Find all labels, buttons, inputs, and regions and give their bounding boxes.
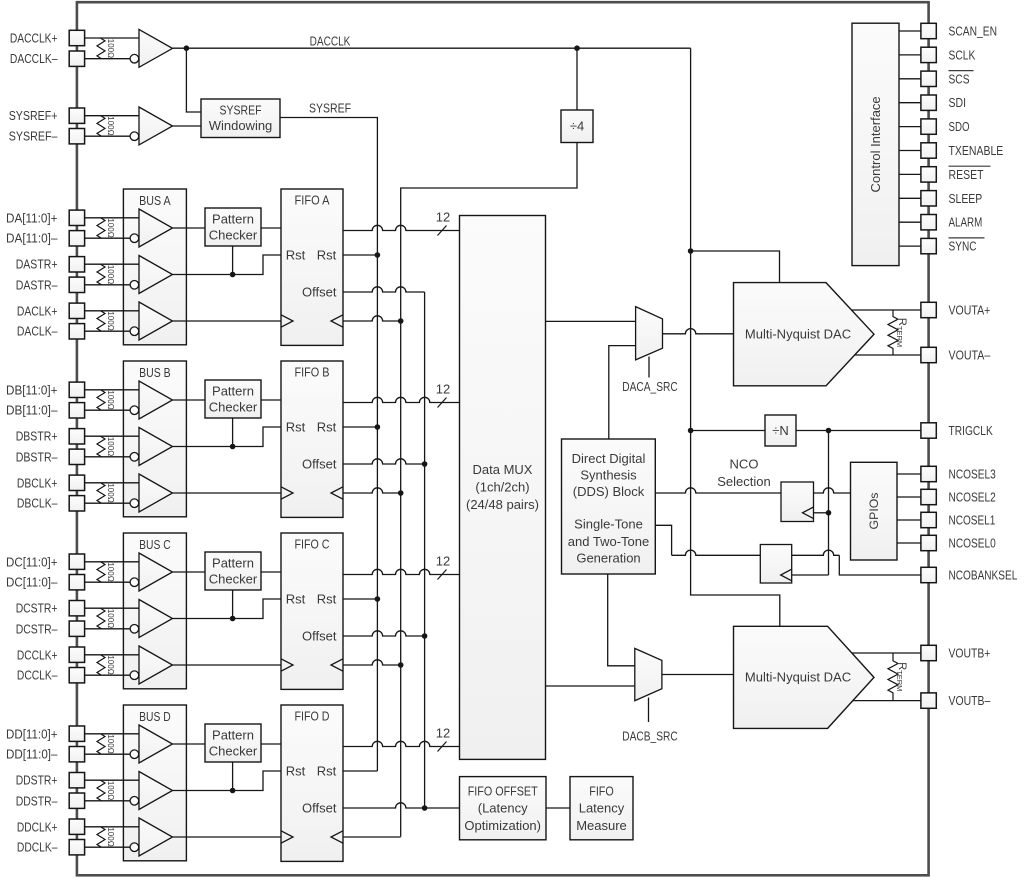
wire DCSTR+ input: [85, 607, 139, 609]
block Control Interface: [852, 23, 899, 265]
wire FIFO C reset to SYSREF bus: [343, 598, 377, 600]
wire FIFO D offset: [343, 803, 460, 808]
svg-text:TXENABLE: TXENABLE: [949, 143, 1004, 158]
wire FIFO C offset: [343, 631, 425, 636]
pin DA[11:0]-: [69, 231, 84, 246]
svg-text:Pattern: Pattern: [212, 212, 254, 227]
block FIFO Latency Measure: [570, 777, 633, 840]
junction DACCLK to DAC A clock: [688, 248, 694, 254]
svg-text:÷4: ÷4: [570, 119, 584, 134]
junction DACCLK to divN: [688, 428, 694, 434]
block BUS C: [123, 533, 186, 689]
svg-text:100Ω: 100Ω: [106, 311, 115, 330]
pin VOUTB-: [921, 693, 936, 708]
wire DDS to DACB mux: [608, 574, 635, 666]
junction DACCLK to divider: [574, 45, 580, 51]
svg-text:SLEEP: SLEEP: [949, 191, 983, 206]
resistor 100ohm DCCLK termination: [97, 655, 105, 675]
svg-text:SCAN_EN: SCAN_EN: [949, 23, 998, 38]
svg-text:DACLK+: DACLK+: [17, 303, 58, 318]
svg-text:VOUTB–: VOUTB–: [949, 693, 992, 708]
pin SCAN_EN: [921, 23, 936, 38]
wire pattern checker C to FIFO C: [261, 571, 281, 573]
svg-text:12: 12: [436, 726, 450, 741]
wire div4 output to FIFO clock bus: [401, 143, 577, 322]
svg-text:SYSREF: SYSREF: [309, 100, 351, 115]
wire DASTR- input: [85, 284, 135, 286]
svg-text:NCOSEL2: NCOSEL2: [949, 489, 996, 504]
clock wedge FIFO C write: [281, 659, 293, 671]
block BUS B: [123, 361, 186, 517]
pin SCLK: [921, 47, 936, 62]
wire DBSTR strobe to FIFO B reset: [173, 427, 282, 447]
junction FIFO B reset on v1: [375, 424, 381, 430]
wire FIFO D data out 12-bit to Data MUX: [343, 741, 460, 746]
wire DACB mux to Multi-Nyquist DAC B: [662, 674, 734, 676]
svg-text:ALARM: ALARM: [949, 215, 983, 230]
DAC B Multi-Nyquist DAC: [734, 626, 875, 728]
pin SYSREF-: [69, 129, 84, 144]
clock wedge FIFO B write: [281, 487, 293, 499]
wire DDS NCO select out1: [655, 488, 781, 493]
svg-text:DACA_SRC: DACA_SRC: [622, 379, 678, 394]
wire DDSTR+ input: [85, 779, 139, 781]
pin ALARM: [921, 215, 936, 230]
svg-text:Data MUX: Data MUX: [473, 462, 533, 477]
wire DACLK+ input: [85, 310, 139, 312]
svg-text:DACCLK: DACCLK: [310, 33, 351, 48]
wire DBSTR+ input: [85, 435, 139, 437]
flip-flop NCO select 2: [760, 545, 791, 584]
svg-text:SYSREF–: SYSREF–: [9, 129, 59, 144]
pin VOUTA-: [921, 347, 936, 362]
wire FIFO D read clock to clock bus: [343, 836, 401, 838]
svg-text:12: 12: [436, 554, 450, 569]
junction FF1 clock on v4: [826, 510, 832, 516]
svg-text:Optimization): Optimization): [464, 818, 541, 833]
buffer DDCLK clock: [139, 818, 173, 856]
block Pattern Checker B: [205, 380, 261, 418]
pin NCOSEL2: [921, 489, 936, 504]
svg-text:DDCLK+: DDCLK+: [17, 819, 58, 834]
wire FF1 clock: [814, 512, 829, 514]
pin DD[11:0]-: [69, 747, 84, 762]
resistor 100ohm DACLK termination: [97, 311, 105, 331]
block FIFO OFFSET latency optimization: [460, 777, 547, 840]
svg-text:Pattern: Pattern: [212, 728, 254, 743]
pin DDSTR+: [69, 773, 84, 788]
wire FIFO clock bus v2: [400, 321, 402, 837]
wire control interface to TXENABLE: [899, 150, 921, 152]
svg-text:Offset: Offset: [302, 285, 337, 300]
divider DIV4: [561, 110, 593, 143]
block FIFO C: [281, 533, 343, 689]
wire FF2 clock: [792, 574, 829, 576]
buffer DBSTR strobe: [139, 428, 173, 466]
wire DACB_SRC select: [648, 698, 650, 723]
svg-text:100Ω: 100Ω: [106, 483, 115, 502]
wire FIFO OFFSET to FIFO Latency Measure: [546, 807, 570, 809]
wire control interface to ALARM: [899, 221, 921, 223]
svg-text:Rst: Rst: [317, 764, 337, 779]
wire DB[11:0]+ input: [85, 389, 139, 391]
svg-text:(DDS) Block: (DDS) Block: [573, 484, 645, 499]
svg-text:Rst: Rst: [317, 420, 337, 435]
svg-text:SYSREF+: SYSREF+: [9, 108, 58, 123]
wire Data MUX to DACB mux: [546, 685, 635, 687]
block Pattern Checker D: [205, 724, 261, 762]
clock wedge FIFO B read: [331, 487, 343, 499]
wire control interface to SDO: [899, 126, 921, 128]
svg-text:DACLK–: DACLK–: [17, 324, 58, 339]
pin SCS: [921, 71, 936, 86]
clock wedge FIFO A read: [331, 315, 343, 327]
junction pattern checker A strobe: [230, 272, 236, 278]
junction FIFO D offset on v3: [422, 805, 428, 811]
svg-text:DCSTR–: DCSTR–: [16, 621, 59, 636]
wire control interface to SYNC: [899, 245, 921, 247]
junction FIFO B offset on v3: [422, 461, 428, 467]
wire DCCLK+ input: [85, 654, 139, 656]
pin DC[11:0]-: [69, 575, 84, 590]
resistor 100ohm DC data termination: [97, 562, 105, 582]
pin NCOSEL3: [921, 466, 936, 481]
wire control interface to SDI: [899, 102, 921, 104]
resistor 100ohm DCSTR termination: [97, 608, 105, 629]
svg-text:TRIGCLK: TRIGCLK: [949, 423, 994, 438]
resistor 100ohm DACCLK termination: [97, 38, 105, 59]
svg-text:FIFO OFFSET: FIFO OFFSET: [468, 783, 538, 798]
wire DA[11:0]- input: [85, 237, 135, 239]
svg-text:DBSTR+: DBSTR+: [16, 429, 58, 444]
resistor 100ohm DA data termination: [97, 218, 105, 238]
pin DACCLK-: [69, 51, 84, 66]
pin DCSTR+: [69, 601, 84, 616]
buffer DBCLK clock: [139, 474, 173, 512]
resistor 100ohm DD data termination: [97, 734, 105, 754]
svg-text:Checker: Checker: [209, 228, 258, 243]
pin SLEEP: [921, 191, 936, 206]
pin DCCLK+: [69, 647, 84, 662]
wire bus A data to pattern checker: [173, 227, 206, 229]
wire DDCLK+ input: [85, 826, 139, 828]
pin DCCLK-: [69, 668, 84, 683]
pin DB[11:0]+: [69, 382, 84, 397]
svg-text:NCOSEL3: NCOSEL3: [949, 466, 996, 481]
wire SYSREF reset bus v1: [376, 255, 378, 771]
buffer DB data: [139, 381, 173, 419]
wire control interface to SCS: [899, 78, 921, 80]
svg-text:Rst: Rst: [286, 248, 306, 263]
svg-text:DCCLK–: DCCLK–: [17, 668, 58, 683]
block Pattern Checker C: [205, 552, 261, 590]
junction pattern checker C strobe: [230, 616, 236, 622]
svg-text:Selection: Selection: [717, 474, 770, 489]
pin DDCLK-: [69, 840, 84, 855]
buffer DCSTR strobe: [139, 600, 173, 638]
buffer DD data: [139, 725, 173, 763]
block BUS A: [123, 189, 186, 345]
svg-text:VOUTA+: VOUTA+: [949, 302, 991, 317]
pin DASTR+: [69, 257, 84, 272]
wire DA[11:0]+ input: [85, 217, 139, 219]
pin DB[11:0]-: [69, 403, 84, 418]
svg-text:BUS D: BUS D: [139, 709, 171, 724]
svg-text:÷N: ÷N: [772, 423, 789, 438]
svg-text:NCOSEL1: NCOSEL1: [949, 512, 996, 527]
wire DBCLK to FIFO B write clock: [173, 492, 282, 494]
svg-text:SDO: SDO: [949, 119, 970, 134]
svg-text:100Ω: 100Ω: [106, 437, 115, 456]
svg-text:NCOBANKSEL: NCOBANKSEL: [949, 567, 1018, 582]
pin DBCLK+: [69, 475, 84, 490]
wire pattern checker C strobe tap: [232, 590, 234, 619]
wire DASTR strobe to FIFO A reset: [173, 255, 282, 275]
svg-text:Rst: Rst: [286, 592, 306, 607]
svg-text:12: 12: [436, 382, 450, 397]
svg-text:Windowing: Windowing: [209, 118, 273, 133]
pin SYNC: [921, 238, 936, 253]
junction FIFO B read clock on v2: [398, 490, 404, 496]
svg-text:Checker: Checker: [209, 400, 258, 415]
svg-text:100Ω: 100Ω: [106, 39, 115, 58]
wire DAC A clock: [691, 251, 780, 283]
junction FIFO C reset on v1: [375, 596, 381, 602]
wire FIFO D reset to SYSREF bus: [343, 770, 377, 772]
svg-text:DC[11:0]+: DC[11:0]+: [6, 554, 58, 569]
svg-text:DC[11:0]–: DC[11:0]–: [6, 575, 58, 590]
svg-text:Single-Tone: Single-Tone: [574, 517, 643, 532]
svg-text:SCLK: SCLK: [949, 47, 976, 62]
junction pattern checker D strobe: [230, 788, 236, 794]
svg-text:DB[11:0]+: DB[11:0]+: [6, 382, 58, 397]
pin TXENABLE: [921, 143, 936, 158]
svg-text:DASTR–: DASTR–: [16, 277, 59, 292]
buffer DACLK clock: [139, 302, 173, 340]
wire GPIO to NCOSEL0: [897, 542, 921, 544]
wire FIFO B data out 12-bit to Data MUX: [343, 397, 460, 402]
wire DBSTR- input: [85, 456, 135, 458]
wire DDCLK to FIFO D write clock: [173, 836, 282, 838]
svg-text:100Ω: 100Ω: [106, 218, 115, 237]
pin DASTR-: [69, 277, 84, 292]
svg-text:100Ω: 100Ω: [106, 827, 115, 846]
pin DA[11:0]+: [69, 210, 84, 225]
pin NCOSEL1: [921, 512, 936, 527]
block SYSREF Windowing: [201, 99, 280, 138]
svg-text:DBCLK+: DBCLK+: [17, 475, 58, 490]
wire pattern checker D strobe tap: [232, 762, 234, 791]
bus width slash 12 FIFO D: [438, 742, 447, 752]
svg-text:Rst: Rst: [317, 592, 337, 607]
resistor RTERM B: [888, 653, 898, 701]
resistor 100ohm DDSTR termination: [97, 780, 105, 801]
svg-text:BUS C: BUS C: [139, 537, 171, 552]
svg-text:FIFO B: FIFO B: [295, 364, 330, 379]
svg-text:DB[11:0]–: DB[11:0]–: [6, 403, 58, 418]
wire DACCLK down right side to DAC clocks: [691, 48, 780, 626]
buffer DA data: [139, 209, 173, 247]
svg-text:FIFO C: FIFO C: [295, 536, 330, 551]
wire TRIGCLK output: [796, 430, 921, 432]
block GPIOs: [851, 462, 898, 560]
bus width slash 12 FIFO A: [438, 226, 447, 236]
svg-text:SDI: SDI: [949, 95, 967, 110]
wire DDSTR strobe to FIFO D reset: [173, 771, 282, 791]
pin SDI: [921, 95, 936, 110]
junction DACCLK to SYSREF windowing: [184, 45, 190, 51]
junction FIFO C read clock on v2: [398, 662, 404, 668]
wire control interface to SLEEP: [899, 197, 921, 199]
svg-text:DA[11:0]–: DA[11:0]–: [6, 231, 58, 246]
pin RESET: [921, 167, 936, 182]
svg-text:Offset: Offset: [302, 457, 337, 472]
svg-text:NCOSEL0: NCOSEL0: [949, 535, 996, 550]
svg-text:Multi-Nyquist DAC: Multi-Nyquist DAC: [745, 327, 851, 342]
svg-text:FIFO: FIFO: [589, 783, 614, 798]
wire DDS NCO select out2: [655, 525, 671, 555]
junction pattern checker B strobe: [230, 444, 236, 450]
wire VOUTB+ output: [852, 652, 921, 654]
wire control interface to SCAN_EN: [899, 30, 921, 32]
wire DACA mux to Multi-Nyquist DAC A: [663, 329, 734, 334]
svg-text:Multi-Nyquist DAC: Multi-Nyquist DAC: [745, 670, 851, 685]
svg-text:Direct Digital: Direct Digital: [572, 451, 646, 466]
svg-text:(Latency: (Latency: [478, 801, 528, 816]
wire DB[11:0]- input: [85, 409, 135, 411]
wire FIFO A reset to SYSREF bus: [343, 254, 377, 256]
svg-text:VOUTB+: VOUTB+: [949, 645, 991, 660]
wire pattern checker B to FIFO B: [261, 399, 281, 401]
pin SDO: [921, 119, 936, 134]
wire DDSTR- input: [85, 800, 135, 802]
wire SYSREF+ input: [85, 115, 139, 117]
wire GPIO to NCOSEL1: [897, 519, 921, 521]
pin NCOSEL0: [921, 535, 936, 550]
pin VOUTB+: [921, 645, 936, 660]
wire VOUTA+ output: [852, 309, 921, 311]
pin DC[11:0]+: [69, 554, 84, 569]
wire DASTR+ input: [85, 263, 139, 265]
buffer DACCLK input: [139, 29, 173, 67]
buffer DCCLK clock: [139, 646, 173, 684]
wire DBCLK+ input: [85, 482, 139, 484]
resistor 100ohm SYSREF termination: [97, 116, 105, 137]
pin DCSTR-: [69, 621, 84, 636]
svg-text:Rst: Rst: [286, 764, 306, 779]
svg-text:GPIOs: GPIOs: [867, 493, 881, 530]
block FIFO D: [281, 705, 343, 861]
svg-text:DBSTR–: DBSTR–: [16, 449, 59, 464]
mux DACB_SRC: [635, 648, 662, 700]
wire control interface to RESET: [899, 173, 921, 175]
wire pattern checker D to FIFO D: [261, 743, 281, 745]
wire FIFO B reset to SYSREF bus: [343, 426, 377, 428]
svg-text:DDSTR+: DDSTR+: [16, 773, 58, 788]
wire DD[11:0]- input: [85, 753, 135, 755]
wire NCO clock bus v4: [828, 431, 830, 576]
wire DC[11:0]+ input: [85, 561, 139, 563]
svg-text:100Ω: 100Ω: [106, 116, 115, 135]
svg-text:VOUTA–: VOUTA–: [949, 347, 992, 362]
svg-text:100Ω: 100Ω: [106, 781, 115, 800]
svg-text:DDCLK–: DDCLK–: [17, 840, 58, 855]
svg-text:RESET: RESET: [949, 167, 984, 182]
svg-text:FIFO D: FIFO D: [295, 708, 330, 723]
svg-text:100Ω: 100Ω: [106, 562, 115, 581]
wire FF2 to NCOBANKSEL: [792, 550, 840, 555]
svg-text:SYNC: SYNC: [949, 239, 977, 254]
resistor 100ohm DDCLK termination: [97, 827, 105, 847]
wire FIFO B offset: [343, 459, 425, 464]
wire FIFO A read clock to clock bus: [343, 316, 401, 321]
svg-text:SCS: SCS: [949, 71, 970, 86]
pin DACLK+: [69, 303, 84, 318]
wire DCCLK to FIFO C write clock: [173, 664, 282, 666]
pin NCOBANKSEL: [921, 567, 936, 582]
wire GPIO to NCOSEL2: [897, 496, 921, 498]
wire DACLK- input: [85, 330, 135, 332]
wire FIFO A data out 12-bit to Data MUX: [343, 225, 460, 230]
svg-text:DACB_SRC: DACB_SRC: [622, 728, 678, 743]
block Pattern Checker A: [205, 208, 261, 246]
junction FIFO A read clock on v2: [398, 318, 404, 324]
wire VOUTB- output: [853, 700, 921, 702]
clock wedge FIFO A write: [281, 315, 293, 327]
svg-text:Pattern: Pattern: [212, 556, 254, 571]
svg-text:DCSTR+: DCSTR+: [16, 601, 58, 616]
block FIFO A: [281, 189, 343, 345]
svg-text:and Two-Tone: and Two-Tone: [568, 534, 649, 549]
bus width slash 12 FIFO C: [438, 570, 447, 580]
pin TRIGCLK: [921, 423, 936, 438]
wire FIFO B read clock to clock bus: [343, 488, 401, 493]
svg-text:12: 12: [436, 210, 450, 225]
wire FIFO C read clock to clock bus: [343, 660, 401, 665]
svg-text:Checker: Checker: [209, 744, 258, 759]
wire bus C data to pattern checker: [173, 571, 206, 573]
wire FF1 to GPIOs: [814, 488, 851, 493]
pin DDCLK+: [69, 819, 84, 834]
wire SYSREF- input: [85, 135, 135, 137]
pin DBSTR+: [69, 429, 84, 444]
svg-text:DD[11:0]–: DD[11:0]–: [6, 747, 58, 762]
wire DACCLK+ input: [85, 37, 139, 39]
wire DACLK to FIFO A write clock: [173, 320, 282, 322]
wire pattern checker A to FIFO A: [261, 227, 281, 229]
svg-text:Pattern: Pattern: [212, 384, 254, 399]
wire DACCLK to div4: [576, 48, 578, 110]
bus width slash 12 FIFO B: [438, 398, 447, 408]
svg-text:DACCLK–: DACCLK–: [10, 51, 58, 66]
svg-text:BUS A: BUS A: [139, 193, 171, 208]
wire DCSTR strobe to FIFO C reset: [173, 599, 282, 619]
buffer SYSREF input: [139, 107, 173, 145]
wire DACCLK to divN: [691, 430, 765, 432]
wire DCSTR- input: [85, 628, 135, 630]
divider DIVN: [765, 415, 796, 446]
wire DACCLK- input: [85, 58, 135, 60]
pin DD[11:0]+: [69, 726, 84, 741]
wire Data MUX to DACA mux: [546, 320, 636, 322]
pin DACCLK+: [69, 30, 84, 45]
block BUS D: [123, 705, 186, 861]
pin SYSREF+: [69, 108, 84, 123]
pin DBCLK-: [69, 496, 84, 511]
wire DDCLK- input: [85, 846, 135, 848]
svg-text:NCO: NCO: [730, 457, 759, 472]
svg-text:DA[11:0]+: DA[11:0]+: [6, 210, 58, 225]
